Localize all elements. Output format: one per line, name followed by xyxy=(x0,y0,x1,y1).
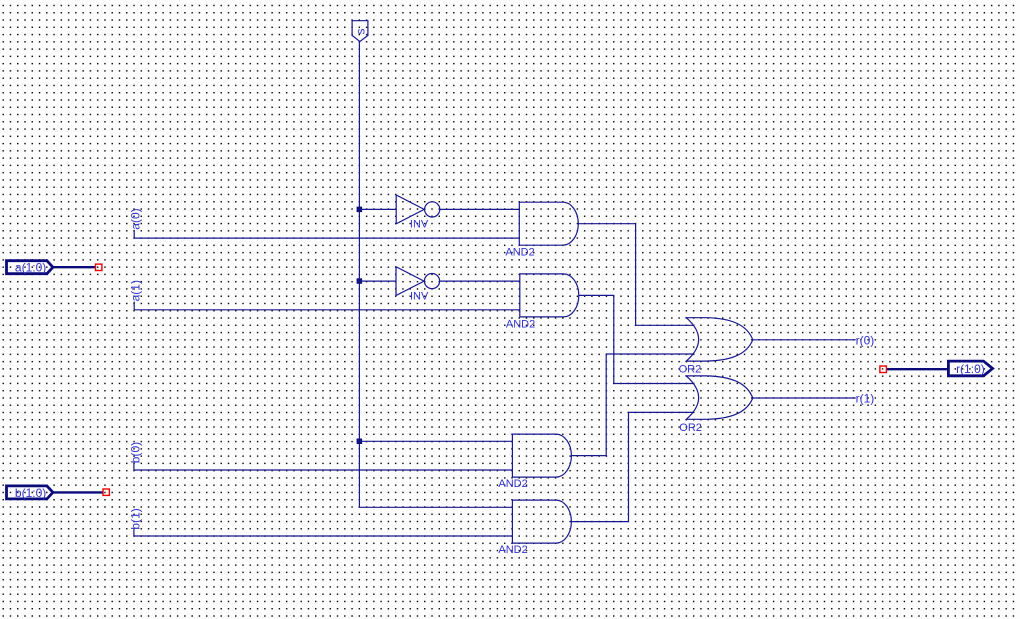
wire b(1) to AND4 input2 xyxy=(134,530,513,536)
and gate U3 AND2 xyxy=(505,202,578,258)
svg-text:OR2: OR2 xyxy=(679,422,702,434)
svg-text:AND2: AND2 xyxy=(498,544,527,556)
wire OR1 output r(0) xyxy=(753,339,856,341)
svg-text:INV: INV xyxy=(410,218,429,230)
wire net s vertical bus xyxy=(359,42,512,508)
svg-text:AND2: AND2 xyxy=(505,246,534,258)
wire a(1) to AND2 input2 xyxy=(134,302,520,310)
wire s to INV2 xyxy=(359,280,396,282)
wire AND3 output to OR1 input2 xyxy=(571,354,694,456)
and gate U6 AND2 xyxy=(498,500,571,556)
wire s to AND3 input1 xyxy=(359,440,512,442)
unconnected bus end marker (red) at a xyxy=(96,264,102,270)
or gate U8 OR2 xyxy=(679,376,753,434)
svg-text:s: s xyxy=(353,29,367,35)
bus wire from port b xyxy=(53,491,103,493)
wire INV2 output to AND2 input1 xyxy=(440,280,520,282)
unconnected bus end marker (red) at b xyxy=(103,489,109,495)
bus wire from port a xyxy=(53,266,96,268)
wire AND4 output to OR2 input2 xyxy=(571,412,694,521)
bus wire to port r xyxy=(886,368,947,370)
net flag s (pentagon symbol at top) xyxy=(352,21,368,42)
svg-text:r(1:0): r(1:0) xyxy=(956,362,985,376)
wire a(0) to AND1 input2 xyxy=(134,230,519,238)
unconnected bus end marker (red) at r xyxy=(880,366,887,373)
svg-text:a(0): a(0) xyxy=(129,208,143,229)
svg-text:r(1): r(1) xyxy=(856,392,875,406)
svg-text:AND2: AND2 xyxy=(498,478,527,490)
wire b(0) to AND3 input2 xyxy=(134,463,513,470)
and gate U5 AND2 xyxy=(498,434,571,490)
svg-text:INV: INV xyxy=(410,290,429,302)
junction on s at AND3 input xyxy=(357,439,363,445)
junction on s at INV1 input xyxy=(357,207,363,213)
and gate U4 AND2 xyxy=(506,274,579,331)
output port r(1:0) xyxy=(948,361,992,376)
svg-text:r(0): r(0) xyxy=(856,333,875,347)
junction on s at INV2 input xyxy=(357,278,363,284)
wire s to INV1 xyxy=(359,208,396,210)
or gate U7 OR2 xyxy=(679,318,753,376)
input port b(1:0) xyxy=(7,486,53,500)
svg-text:OR2: OR2 xyxy=(679,363,702,375)
input port a(1:0) xyxy=(7,261,53,275)
wire INV1 output to AND1 input1 xyxy=(440,208,520,210)
wire AND1 output to OR1 input1 xyxy=(578,224,694,326)
svg-text:b(0): b(0) xyxy=(128,442,142,463)
svg-text:b(1): b(1) xyxy=(128,508,142,529)
svg-text:b(1:0): b(1:0) xyxy=(15,486,46,500)
svg-text:a(1:0): a(1:0) xyxy=(15,261,46,275)
svg-text:AND2: AND2 xyxy=(506,319,535,331)
inverter U1 INV xyxy=(396,195,440,230)
wire AND2 output to OR2 input1 xyxy=(579,295,695,383)
wire OR2 output r(1) xyxy=(753,397,856,399)
inverter U2 INV xyxy=(396,267,440,303)
svg-text:a(1): a(1) xyxy=(129,280,143,301)
